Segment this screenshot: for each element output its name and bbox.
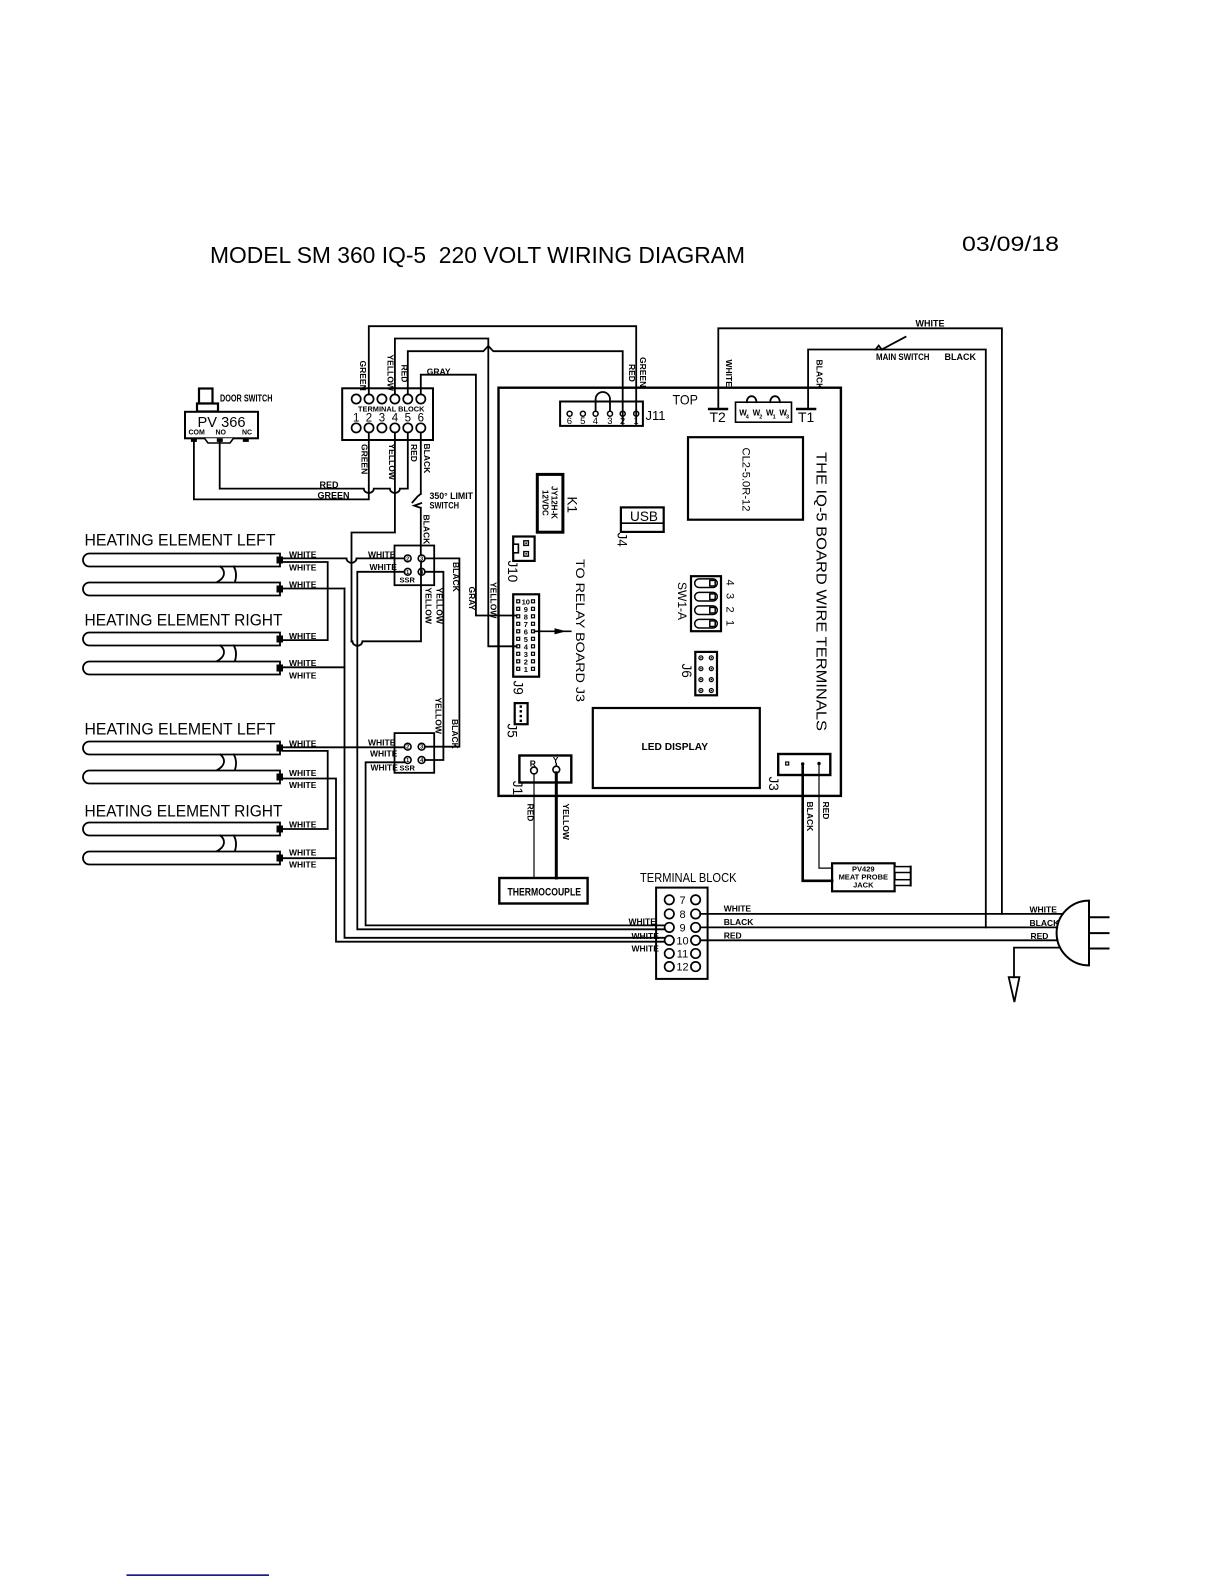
svg-text:12: 12 [676, 962, 688, 974]
svg-text:4: 4 [593, 416, 598, 427]
labels yellow black between SSRs [424, 562, 462, 750]
svg-text:1: 1 [524, 665, 528, 674]
blue rule bottom left [127, 1574, 270, 1576]
svg-text:11: 11 [677, 949, 688, 961]
svg-text:RED: RED [821, 802, 831, 820]
PV429 meat probe jack [832, 863, 911, 891]
wire black main switch right then down to plug junction [882, 350, 986, 928]
solid state relay SSR1 [395, 546, 435, 586]
svg-text:NO: NO [216, 430, 227, 437]
svg-text:SW1-A: SW1-A [675, 582, 689, 620]
svg-text:WHITE: WHITE [371, 762, 399, 772]
wire white V2 long vertical down to TB2 pin10 upper [345, 589, 665, 938]
IQ-5 board outline [499, 388, 841, 796]
wire labels above TB1 [358, 355, 451, 392]
connector J11 [560, 392, 665, 427]
svg-text:WHITE: WHITE [289, 847, 317, 857]
svg-text:1: 1 [773, 415, 776, 421]
terminal block TB2 [640, 871, 737, 979]
svg-text:LED DISPLAY: LED DISPLAY [642, 741, 709, 753]
svg-text:TERMINAL BLOCK: TERMINAL BLOCK [640, 871, 737, 885]
wire white E4 tube2 joins V2b [283, 857, 336, 859]
svg-text:YELLOW: YELLOW [489, 582, 499, 619]
svg-text:BLACK: BLACK [422, 515, 432, 546]
svg-text:12VDC: 12VDC [541, 490, 550, 516]
wire labels below TB1 [360, 444, 433, 481]
svg-text:BLACK: BLACK [422, 444, 432, 475]
svg-text:HEATING ELEMENT LEFT: HEATING ELEMENT LEFT [85, 532, 276, 550]
TITLE [210, 233, 1059, 268]
svg-text:COM: COM [189, 430, 206, 437]
svg-text:BLACK: BLACK [724, 917, 755, 927]
thermocouple [499, 878, 587, 904]
solid state relay SSR2 [395, 733, 435, 773]
wire yellow TB1 pin4 up then down left side to J9 pin4 [395, 339, 517, 647]
svg-text:WHITE: WHITE [289, 780, 317, 790]
svg-text:4: 4 [724, 580, 736, 586]
svg-text:T2: T2 [710, 409, 727, 425]
dip switch SW1-A [675, 576, 736, 631]
terminal T2 [709, 409, 727, 425]
main switch triangle [876, 346, 882, 350]
wire red door switch NO to TB1 pin5 (hops over green and yellow) [220, 433, 408, 493]
svg-text:BLACK: BLACK [815, 360, 825, 391]
arrow J9 pin6 to relay board [535, 630, 571, 632]
wire black limit switch to SSR1 pin3 [420, 508, 422, 555]
svg-text:USB: USB [630, 509, 658, 524]
wire green TB1 pin2 up to J11 pin1 [369, 326, 636, 424]
svg-text:GREEN: GREEN [638, 357, 648, 387]
svg-text:WHITE: WHITE [632, 931, 660, 941]
connector J5 [505, 703, 528, 738]
wire red J3 to PV429 [819, 764, 832, 869]
wire ground from plug [1014, 948, 1060, 978]
svg-text:J3: J3 [766, 777, 781, 791]
svg-text:MODEL SM 360 IQ-5 220 VOLT WI: MODEL SM 360 IQ-5 220 VOLT WIRING DIAGRA… [210, 242, 745, 268]
svg-text:WHITE: WHITE [289, 768, 317, 778]
svg-text:THERMOCOUPLE: THERMOCOUPLE [508, 887, 582, 899]
svg-text:2: 2 [759, 415, 762, 421]
relay K1 [537, 474, 579, 532]
svg-text:03/09/18: 03/09/18 [962, 233, 1059, 256]
svg-text:YELLOW: YELLOW [561, 804, 571, 841]
fuse block W4 W2 W1 W3 [736, 396, 792, 422]
svg-text:SWITCH: SWITCH [430, 501, 460, 511]
svg-text:THE IQ-5 BOARD WIRE TERMINALS: THE IQ-5 BOARD WIRE TERMINALS [813, 452, 829, 731]
svg-text:RED: RED [1031, 931, 1049, 941]
wire white T2 up and across to right then down to plug junction [718, 328, 1002, 914]
heating element group 1 [83, 532, 317, 596]
wire black TB1 pin6 down to 350 limit switch [420, 433, 422, 494]
wire red TB1 pin5 up to J11 pin2 (hop over yellow) [408, 346, 623, 424]
connector USB J4 [615, 507, 664, 547]
connector J9 [511, 594, 571, 694]
svg-text:HEATING ELEMENT RIGHT: HEATING ELEMENT RIGHT [85, 803, 283, 821]
svg-text:K1: K1 [565, 497, 580, 514]
svg-text:3: 3 [786, 415, 789, 421]
wire white E1 tube1 branch down to E2 tube1 [283, 562, 328, 640]
relay CL2-5.0R-12 [688, 437, 803, 520]
wire red J1 to thermocouple [533, 774, 535, 878]
connector J1 [510, 755, 571, 795]
door switch PV 366 [185, 389, 273, 444]
svg-text:WHITE: WHITE [289, 562, 317, 572]
svg-text:TO RELAY BOARD J3: TO RELAY BOARD J3 [573, 559, 585, 702]
svg-text:WHITE: WHITE [916, 319, 945, 329]
svg-text:J10: J10 [505, 561, 520, 583]
svg-text:5: 5 [580, 416, 585, 427]
wire black TB2 pin9 to plug [700, 926, 1057, 928]
wire black J3 to PV429 [803, 764, 832, 881]
svg-text:J1: J1 [510, 781, 525, 795]
wire ssr1 control horizontal (hop over white vert) to SSR1 pin3 bottom [352, 562, 422, 646]
connector J3 [766, 754, 830, 791]
svg-text:YELLOW: YELLOW [424, 588, 434, 625]
wire white SSR1 pin1 left then long down to TB2 pin9 lower [357, 572, 664, 930]
svg-text:2: 2 [406, 745, 409, 751]
svg-text:MAIN SWITCH: MAIN SWITCH [876, 352, 930, 362]
wire white E3 tube2 to long vertical V2b [283, 779, 665, 942]
wire green TB1 pin2 down to door switch COM [194, 433, 369, 500]
wire white E2 tube2 joins V2 [283, 666, 345, 668]
svg-text:WHITE: WHITE [289, 819, 317, 829]
heating element group 3 [83, 721, 317, 790]
svg-text:350° LIMIT: 350° LIMIT [430, 491, 474, 501]
svg-text:BLACK: BLACK [805, 802, 815, 833]
labels white on TB2 left wires [629, 916, 660, 953]
svg-text:J9: J9 [511, 681, 526, 695]
svg-text:9: 9 [679, 922, 685, 934]
svg-text:J6: J6 [679, 664, 694, 678]
svg-text:3: 3 [724, 593, 736, 599]
wire white E1 tube1 to SSR1 pin2 (hop over yellow vert) [283, 558, 404, 562]
svg-text:2: 2 [406, 556, 409, 562]
heating element group 2 [83, 612, 317, 681]
connector J10 [505, 537, 535, 583]
labels white at SSR1 [368, 549, 397, 572]
svg-text:7: 7 [679, 895, 685, 907]
svg-text:WHITE: WHITE [289, 670, 317, 680]
svg-text:RED: RED [409, 444, 419, 462]
labels white at SSR2 [368, 737, 398, 772]
svg-text:WHITE: WHITE [370, 748, 398, 758]
svg-text:WHITE: WHITE [724, 360, 734, 388]
svg-text:R: R [530, 759, 536, 769]
wire yellow TB1 pin4 down jog left down to SSR control row [352, 433, 395, 642]
labels white black red near plug [1030, 905, 1061, 941]
svg-text:J4: J4 [615, 533, 630, 548]
svg-text:1: 1 [724, 620, 736, 626]
wire white SSR2 pin1 left then down to TB2 pin9 upper [366, 762, 665, 925]
connector J6 [679, 652, 717, 695]
svg-text:3: 3 [607, 416, 612, 427]
svg-text:CL2-5.0R-12: CL2-5.0R-12 [740, 448, 752, 512]
wire white E3 tube1 to SSR2 pin2 [283, 746, 404, 748]
wire white TB2 pin8 to plug [700, 913, 1063, 915]
svg-text:GREEN: GREEN [358, 361, 368, 391]
svg-text:3: 3 [420, 745, 423, 751]
svg-text:BLACK: BLACK [1030, 918, 1061, 928]
LED display [593, 708, 760, 788]
svg-text:WHITE: WHITE [289, 658, 317, 668]
svg-text:HEATING ELEMENT RIGHT: HEATING ELEMENT RIGHT [85, 612, 283, 630]
svg-text:JY12H-K: JY12H-K [550, 486, 559, 519]
350 limit switch blade [412, 494, 420, 503]
svg-text:HEATING ELEMENT LEFT: HEATING ELEMENT LEFT [85, 721, 276, 739]
wire black SSR1 pin3 right down to SSR2 pin3 [425, 558, 460, 746]
svg-text:SSR: SSR [400, 576, 416, 585]
svg-text:SSR: SSR [400, 764, 416, 773]
labels gray yellow left of board [467, 582, 499, 619]
terminal block TB1 [342, 388, 433, 440]
svg-text:WHITE: WHITE [724, 904, 752, 914]
svg-text:T1: T1 [798, 409, 815, 425]
svg-text:WHITE: WHITE [368, 737, 396, 747]
svg-text:BLACK: BLACK [945, 352, 977, 362]
svg-text:J11: J11 [646, 408, 666, 423]
svg-text:10: 10 [676, 935, 688, 947]
svg-text:2: 2 [724, 607, 736, 613]
svg-text:YELLOW: YELLOW [434, 698, 444, 735]
svg-text:8: 8 [679, 909, 685, 921]
svg-text:DOOR SWITCH: DOOR SWITCH [220, 393, 273, 405]
svg-text:TOP: TOP [673, 392, 699, 408]
wire white E1 tube2 to long vertical V2 [283, 588, 345, 590]
svg-text:WHITE: WHITE [370, 562, 398, 572]
svg-text:WHITE: WHITE [632, 943, 660, 953]
svg-text:WHITE: WHITE [289, 859, 317, 869]
heating element group 4 [83, 803, 317, 870]
terminal T1 [797, 409, 815, 425]
wire yellow J1 to thermocouple [555, 773, 558, 878]
svg-text:JACK: JACK [853, 881, 874, 890]
svg-text:RED: RED [724, 930, 742, 940]
svg-text:J5: J5 [505, 724, 520, 738]
ground arrow [1009, 977, 1020, 1002]
svg-text:6: 6 [567, 416, 572, 427]
wire gray TB1 pin6 up then down left side to J9 pin8 [421, 375, 517, 616]
350 limit switch arrow contact [414, 503, 421, 508]
wire yellow SSR1 pin4 right down to SSR2 pin4 [425, 572, 444, 760]
main switch blade [882, 337, 906, 350]
wire black T1 up to main switch [808, 350, 875, 409]
wire red TB2 pin10 to plug [700, 939, 1057, 941]
labels white black red right of TB2 [724, 904, 755, 941]
power plug [1057, 901, 1109, 966]
wire white E3 tube1 branch down to E4 tube1 [283, 751, 328, 829]
svg-text:NC: NC [242, 430, 252, 437]
